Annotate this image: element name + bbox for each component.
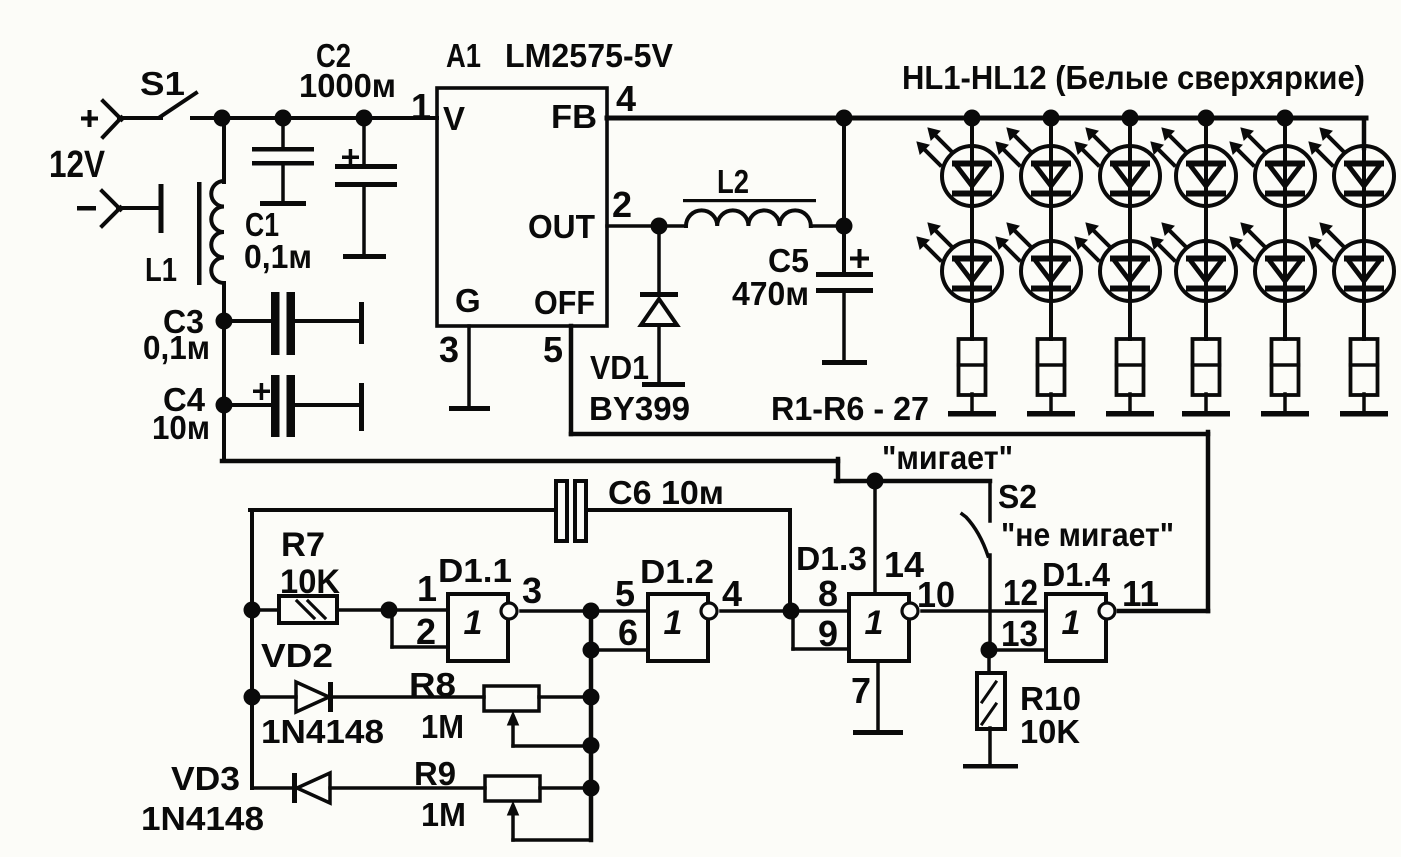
- svg-text:0,1м: 0,1м: [143, 329, 210, 366]
- svg-text:1: 1: [865, 604, 884, 642]
- svg-text:"мигает": "мигает": [882, 439, 1013, 476]
- svg-text:1: 1: [664, 604, 683, 642]
- svg-text:D1.4: D1.4: [1042, 556, 1111, 593]
- svg-text:1: 1: [411, 86, 431, 127]
- svg-text:R7: R7: [281, 526, 325, 564]
- svg-text:D1.3: D1.3: [796, 540, 867, 577]
- svg-text:0,1м: 0,1м: [244, 238, 312, 275]
- svg-text:1N4148: 1N4148: [261, 713, 384, 750]
- svg-text:VD3: VD3: [171, 760, 240, 797]
- svg-text:R9: R9: [414, 755, 456, 792]
- svg-text:1N4148: 1N4148: [141, 800, 264, 837]
- svg-text:V: V: [443, 100, 465, 137]
- svg-text:A1: A1: [446, 37, 481, 74]
- svg-text:S1: S1: [140, 65, 185, 102]
- svg-text:R10: R10: [1020, 680, 1081, 717]
- svg-text:10м: 10м: [152, 409, 210, 446]
- svg-text:S2: S2: [998, 478, 1037, 515]
- svg-text:13: 13: [1001, 613, 1038, 654]
- svg-text:D1.2: D1.2: [640, 553, 714, 590]
- svg-text:"не мигает": "не мигает": [1001, 516, 1174, 553]
- svg-text:R8: R8: [409, 666, 456, 703]
- svg-text:1M: 1M: [421, 796, 466, 833]
- svg-text:OUT: OUT: [528, 208, 595, 245]
- svg-text:VD1: VD1: [590, 349, 649, 386]
- svg-text:470м: 470м: [732, 275, 809, 312]
- svg-text:8: 8: [818, 573, 838, 614]
- svg-text:1: 1: [1062, 604, 1081, 642]
- svg-text:C6 10м: C6 10м: [608, 474, 724, 511]
- svg-text:C5: C5: [768, 242, 809, 279]
- svg-text:4: 4: [722, 573, 742, 614]
- svg-text:2: 2: [612, 184, 632, 225]
- svg-text:1000м: 1000м: [299, 67, 396, 104]
- svg-text:10: 10: [917, 574, 955, 615]
- svg-text:1M: 1M: [421, 708, 464, 745]
- svg-text:3: 3: [522, 570, 542, 611]
- svg-text:4: 4: [616, 78, 636, 119]
- svg-text:9: 9: [818, 613, 838, 654]
- svg-text:L1: L1: [145, 251, 177, 288]
- svg-text:G: G: [455, 282, 481, 319]
- svg-text:7: 7: [851, 670, 871, 711]
- svg-text:1: 1: [417, 568, 437, 609]
- svg-text:R1-R6 - 27: R1-R6 - 27: [771, 390, 929, 427]
- svg-text:12V: 12V: [49, 144, 106, 186]
- svg-text:FB: FB: [551, 98, 597, 135]
- svg-text:10K: 10K: [1020, 713, 1080, 750]
- svg-text:OFF: OFF: [534, 284, 595, 321]
- svg-text:1: 1: [464, 604, 483, 642]
- svg-text:11: 11: [1122, 573, 1159, 614]
- svg-text:VD2: VD2: [261, 637, 333, 674]
- svg-text:3: 3: [439, 329, 459, 370]
- svg-text:12: 12: [1003, 572, 1038, 613]
- svg-text:5: 5: [543, 329, 563, 370]
- svg-text:D1.1: D1.1: [438, 552, 512, 589]
- svg-text:BY399: BY399: [589, 390, 690, 427]
- svg-text:LM2575-5V: LM2575-5V: [505, 37, 673, 74]
- svg-text:L2: L2: [717, 163, 749, 200]
- svg-text:6: 6: [618, 612, 638, 653]
- svg-text:10K: 10K: [280, 563, 340, 601]
- svg-text:5: 5: [615, 573, 635, 614]
- svg-text:2: 2: [416, 611, 436, 652]
- svg-text:HL1-HL12 (Белые сверхяркие): HL1-HL12 (Белые сверхяркие): [902, 59, 1365, 96]
